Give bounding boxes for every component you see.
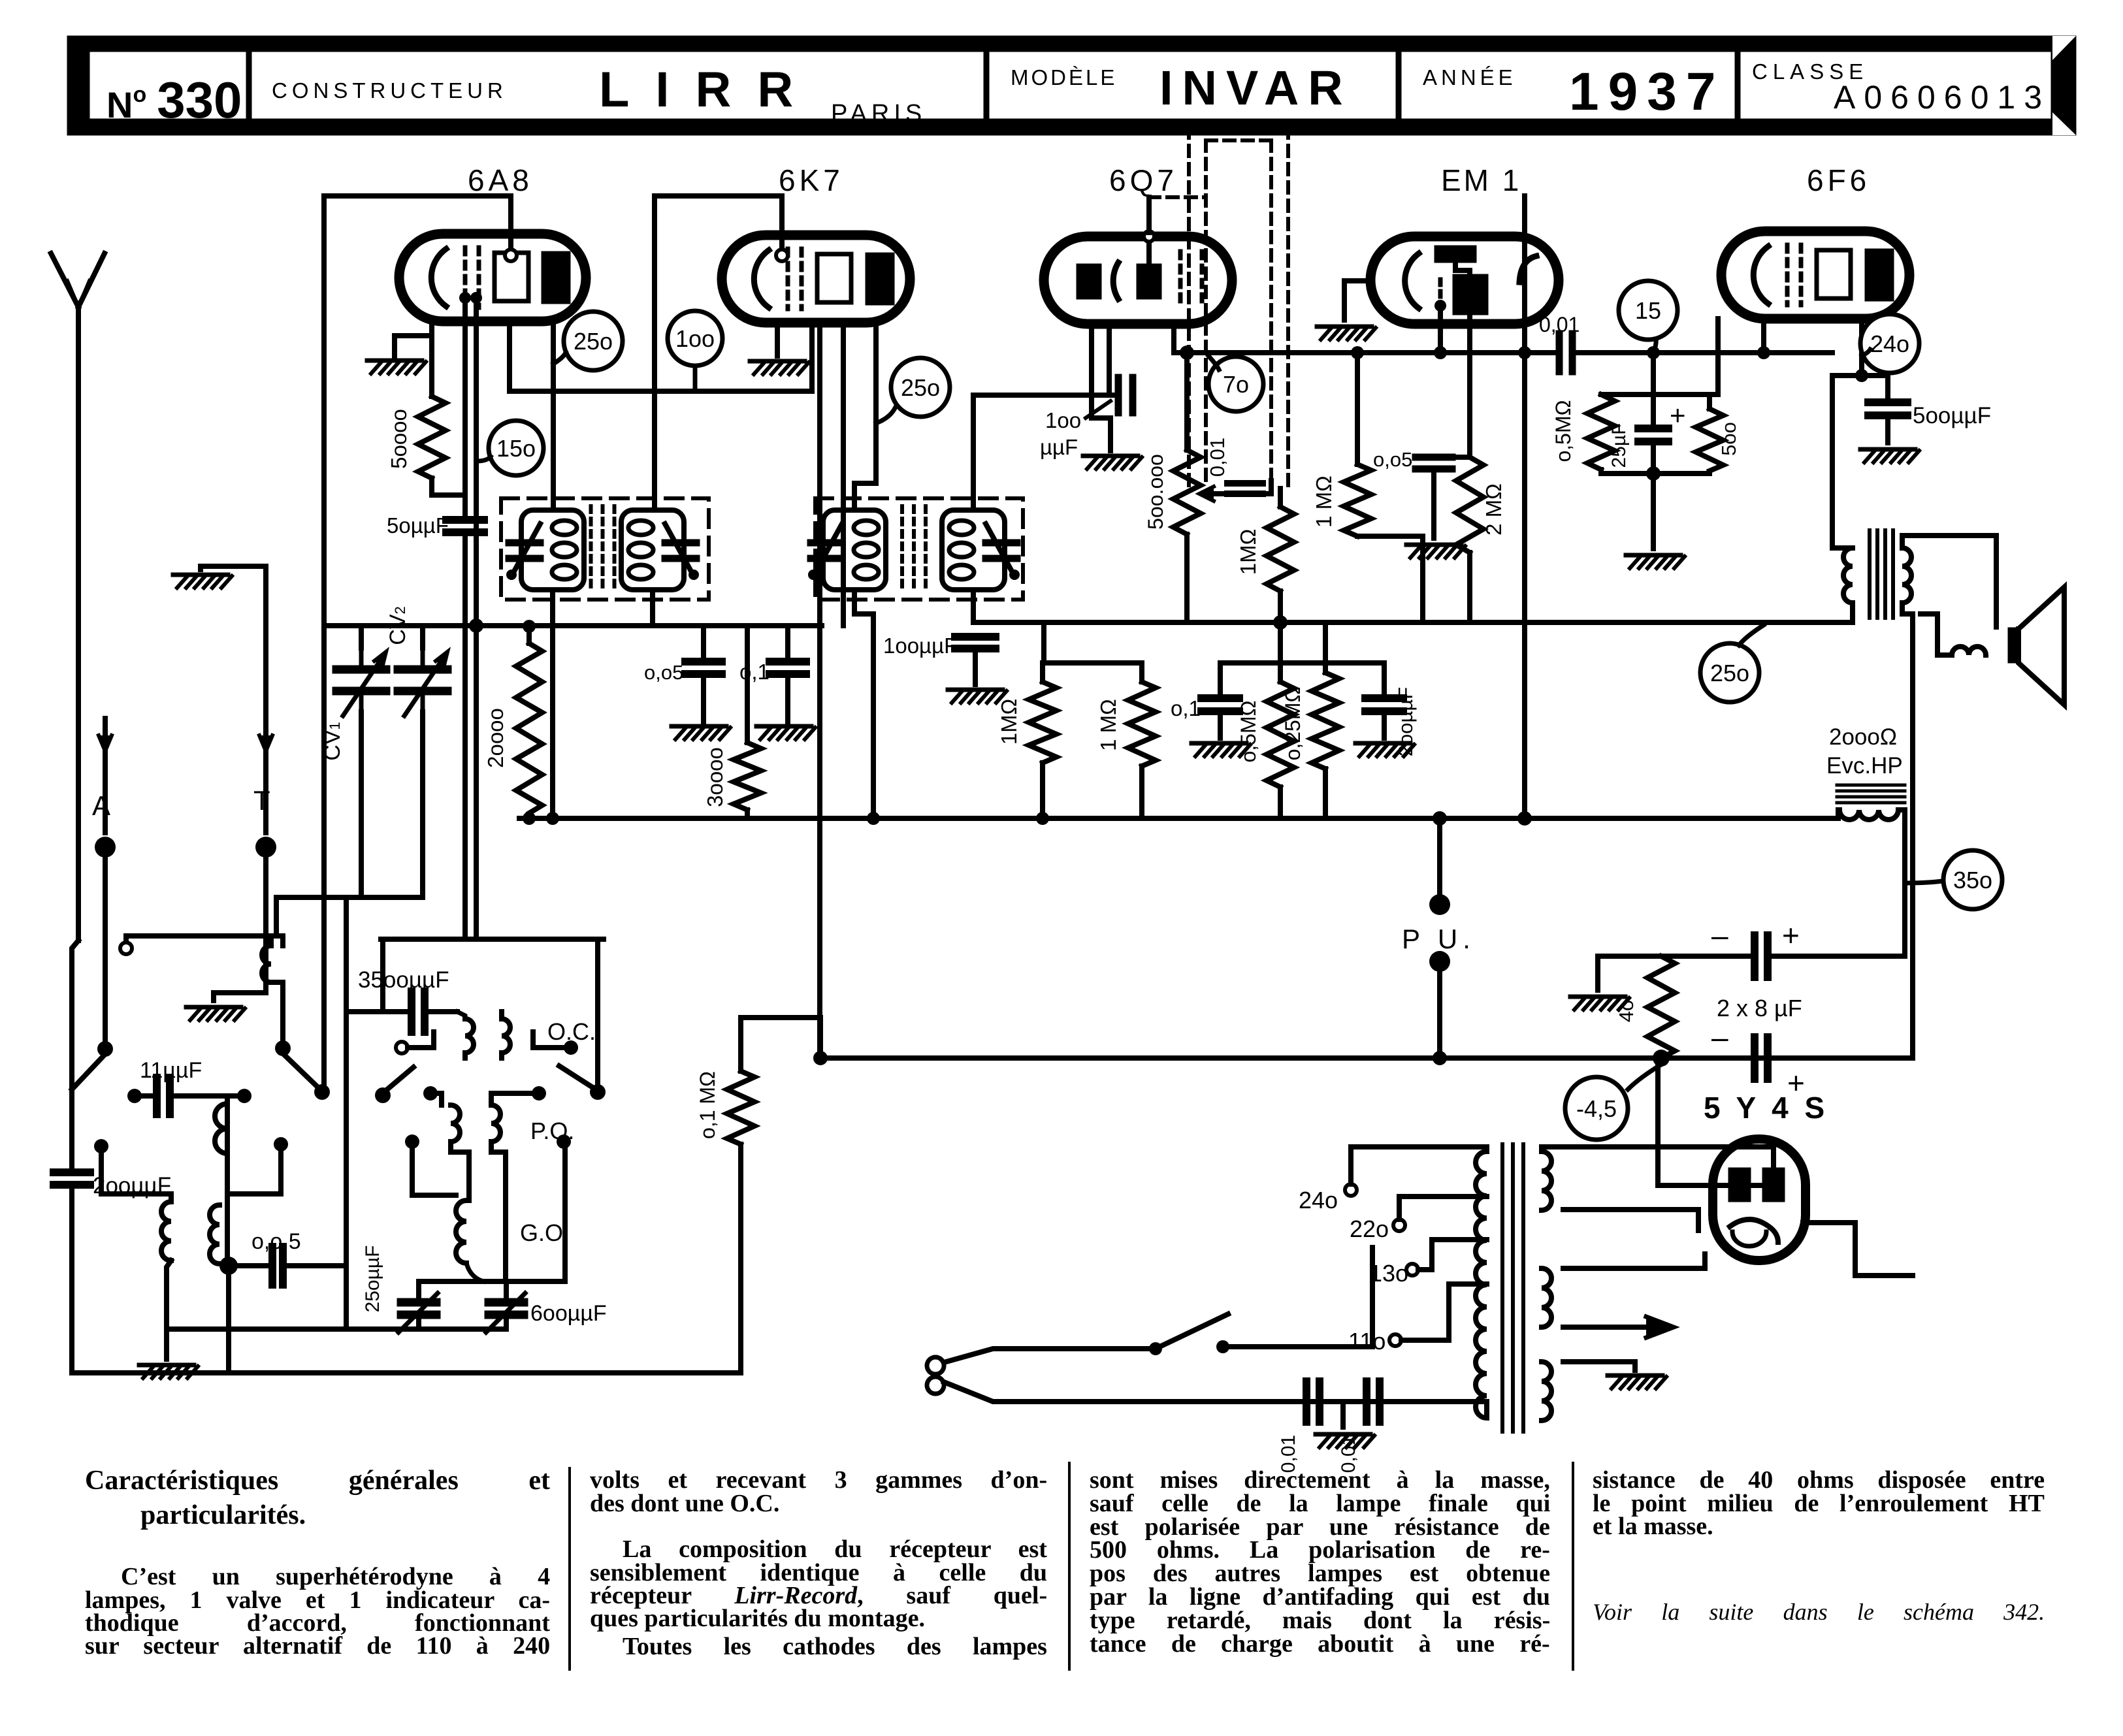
wire 500 top (1707, 394, 1712, 409)
wire 6A8 plate (551, 323, 556, 509)
mains wire top (944, 1349, 1156, 1362)
svg-text:5oo.ooo: 5oo.ooo (1144, 454, 1167, 530)
tube 6Q7 envelope (1044, 236, 1232, 324)
wire antenna drop (72, 940, 78, 1166)
svg-text:o,o5: o,o5 (1373, 448, 1412, 471)
wire 30000 leads (745, 626, 750, 818)
svg-text:1MΩ: 1MΩ (997, 699, 1021, 745)
wire bank rail 1 (1043, 622, 1142, 663)
resistor 0,5M (1237, 682, 1294, 787)
node ant switch right (275, 1040, 291, 1056)
wire IFT1 left bottom (550, 594, 555, 818)
node ant mid (219, 1257, 238, 1275)
wire CV2 route (346, 712, 423, 1329)
tap 130 (1369, 1240, 1487, 1287)
wire bank1 leads (1040, 663, 1045, 818)
coil GO (405, 1134, 571, 1281)
wire mains gnd stub (1340, 1402, 1346, 1427)
wire 0,01 to 1M (1278, 489, 1283, 507)
tap 220 (1350, 1197, 1487, 1242)
header outer box (67, 36, 2076, 135)
svg-text:2 x 8 µF: 2 x 8 µF (1717, 995, 1802, 1021)
text column 1 heading (85, 1466, 550, 1530)
coil ant sec 1 (161, 1194, 171, 1329)
text column 1 body (85, 1563, 550, 1660)
node 1M EM1 (1351, 346, 1364, 359)
svg-text:1oo: 1oo (1045, 408, 1081, 432)
svg-text:P U.: P U. (1402, 924, 1476, 954)
wire 1M EM1 bot (1357, 536, 1423, 622)
circle 250 (output) (1700, 625, 1764, 702)
wire EM1 right wire (1522, 196, 1527, 818)
tube label 6K7 (779, 163, 844, 197)
antenna (51, 253, 105, 940)
power transformer HT winding (1542, 1151, 1551, 1210)
node bus upper x2334 (1517, 811, 1532, 826)
svg-text:24o: 24o (1870, 330, 1909, 357)
svg-text:CONSTRUCTEUR: CONSTRUCTEUR (272, 78, 508, 103)
terminal T (214, 566, 276, 1001)
wire primary bottom (1484, 1402, 1489, 1414)
tube EM1 internals (1370, 236, 1559, 324)
wire 8uF-1 leads (1598, 954, 1905, 959)
svg-text:G.O: G.O (520, 1219, 563, 1246)
svg-text:7o: 7o (1223, 371, 1249, 398)
wire CV1 top (359, 626, 364, 648)
wire EM1 rail (1423, 455, 1470, 460)
resistor 2M (1456, 457, 1506, 553)
wire 2M bottom (1467, 553, 1472, 622)
wire bank rail 2 (1220, 660, 1384, 666)
node 6K7 top cap (776, 249, 788, 261)
svg-text:4o: 4o (1615, 1000, 1638, 1022)
ground transformer (1608, 1375, 1666, 1389)
node 40 bus (1653, 1050, 1670, 1067)
wire fil top (1563, 1254, 1705, 1268)
capacitor 200uuF (1365, 687, 1417, 756)
svg-text:LIRR: LIRR (599, 62, 819, 118)
svg-text:O.C.: O.C. (547, 1018, 596, 1045)
text column 2a (590, 1466, 1047, 1517)
wire 6A8 pin osc (474, 298, 479, 939)
wire 0,1 gnd (785, 674, 790, 722)
tap ant right (229, 1137, 288, 1194)
wire T upper hook (201, 566, 266, 570)
ground mains (1316, 1434, 1374, 1447)
resistor 0,25M (1281, 673, 1339, 769)
wire 6Q7 plate pin (1171, 324, 1176, 353)
bus upper (519, 812, 1838, 825)
svg-text:35o: 35o (1953, 867, 1992, 893)
svg-text:6Q7: 6Q7 (1109, 163, 1178, 197)
wire pot top (1184, 353, 1190, 450)
svg-text:A0606013: A0606013 (1834, 79, 2050, 116)
svg-text:35ooµµF: 35ooµµF (358, 967, 449, 993)
svg-text:25o: 25o (901, 374, 940, 401)
header CONSTRUCTEUR (272, 78, 508, 103)
column divider 3 (1572, 1463, 1574, 1669)
svg-text:o,1: o,1 (1171, 696, 1201, 720)
bus L1 (1174, 350, 1555, 355)
speaker voice coil (1920, 614, 1986, 655)
capacitor 0,1 (6K7) (739, 660, 806, 684)
wire 0,1M bottom (738, 1144, 743, 1373)
capacitor 0,05 (EM1) (1373, 448, 1452, 471)
capacitor 50uuF (387, 513, 484, 538)
resistor 30000 (703, 743, 761, 810)
node switch right (1216, 1340, 1229, 1353)
svg-text:o,o5: o,o5 (644, 661, 683, 684)
wire mid riser (226, 1266, 231, 1373)
wire bias to plate (1658, 1058, 1774, 1185)
svg-text:tance de charge aboutit à une: tance de charge aboutit à une ré- (1090, 1630, 1550, 1658)
coil OC (457, 1012, 510, 1058)
svg-text:–: – (1711, 1020, 1728, 1054)
resistor 500 (6F6) (1696, 409, 1740, 471)
text column 2c (623, 1633, 1047, 1660)
svg-text:Evc.HP: Evc.HP (1826, 753, 1903, 779)
wire 0,5M bot (1278, 787, 1283, 818)
wire 6A8 g2 line (510, 321, 812, 391)
wire 0,25M leads (1323, 622, 1328, 818)
resistor 1M bank2 (1096, 682, 1156, 766)
tube 5Y4S (1713, 1139, 1806, 1261)
text column 3 (1090, 1466, 1550, 1658)
svg-text:o,5MΩ: o,5MΩ (1551, 400, 1575, 462)
svg-text:25oµµF: 25oµµF (362, 1246, 383, 1313)
node 6A8 top cap (505, 249, 517, 261)
speaker (2008, 587, 2064, 705)
circle 150 (476, 421, 543, 475)
svg-text:2oooo: 2oooo (483, 708, 508, 768)
node cluster (1646, 466, 1661, 481)
svg-text:15: 15 (1635, 297, 1661, 324)
capacitor 8uF-2 (1711, 1020, 1805, 1100)
svg-text:6ooµµF: 6ooµµF (530, 1301, 607, 1326)
circle 250 (6K7) (876, 358, 950, 423)
svg-text:5 Y 4 S: 5 Y 4 S (1704, 1091, 1828, 1125)
header PARIS (831, 100, 926, 127)
wire 6Q7 topcap (1146, 197, 1152, 233)
wire 0,1M top (738, 1018, 743, 1071)
wire heater top lead (1563, 1359, 1635, 1364)
tap 110 (1348, 1284, 1487, 1355)
resistor 40 (1615, 956, 1675, 1058)
switch osc left arm (384, 1067, 413, 1092)
ground T upper (173, 575, 232, 588)
pot arrow (1199, 487, 1242, 501)
wire 25uF leads (1651, 394, 1656, 474)
wire 6K7 top-cap bracket (655, 196, 782, 508)
svg-text:24o: 24o (1299, 1187, 1338, 1214)
wire 6K7 cathode (775, 323, 780, 356)
output transformer secondary (1902, 536, 1996, 627)
switch A arm (72, 1054, 105, 1089)
mains wire right (1223, 1344, 1372, 1349)
coil ant sec 2 (210, 1205, 219, 1264)
svg-text:5oooo: 5oooo (387, 409, 411, 469)
circle 70 (1208, 356, 1263, 411)
svg-text:2oooΩ: 2oooΩ (1829, 724, 1897, 750)
svg-text:o,1 MΩ: o,1 MΩ (696, 1071, 719, 1139)
capacitor 100uuF (IF) (883, 634, 996, 658)
tube 6Q7 internals (1077, 231, 1202, 309)
bus L2 segment B (975, 620, 1836, 625)
wire field left (1838, 810, 1839, 818)
circle 250 (6A8) (553, 312, 623, 370)
wire 50uuF down (462, 532, 468, 939)
output transformer core (1870, 530, 1893, 618)
resistor 500000 pot (1144, 450, 1201, 534)
output transformer primary (1832, 548, 1853, 622)
ground 100uuF (948, 690, 1007, 703)
ground fil stub (1632, 1362, 1638, 1370)
svg-text:6F6: 6F6 (1807, 163, 1870, 197)
wire HT top (1542, 1147, 1774, 1168)
tap ant left (94, 1139, 171, 1194)
svg-text:INVAR: INVAR (1159, 61, 1352, 115)
wire osc right edge (595, 939, 600, 1084)
node 15 bus (1647, 346, 1660, 359)
node 6F6 grid (1757, 346, 1770, 359)
wire osc jumper 1962 (419, 1279, 565, 1284)
wire EM1 left gnd (1344, 281, 1370, 320)
text column 4 (1593, 1466, 2045, 1540)
wire 1M EM1 hang (1355, 353, 1360, 464)
capacitor 0,01 (6Q7) (1206, 438, 1263, 494)
wire 0,05 hang (701, 626, 706, 662)
bus osc bottom y2035 (167, 1326, 506, 1332)
svg-text:1MΩ: 1MΩ (1236, 529, 1260, 575)
column divider 2 (1068, 1463, 1071, 1669)
wire 1256 riser (818, 1018, 823, 1058)
svg-text:25o: 25o (1710, 660, 1749, 686)
wire 0,1 hang (785, 626, 790, 662)
IF transformer 2 (808, 498, 1023, 600)
svg-text:-4,5: -4,5 (1576, 1095, 1617, 1122)
wire CV2 top (420, 626, 425, 648)
wire EM1 grid stub (1438, 312, 1443, 353)
svg-text:Voir la suite dans le schéma 3: Voir la suite dans le schéma 342. (1593, 1599, 2045, 1625)
capacitor 0,05 antenna (229, 1229, 346, 1285)
circle -4,5 (1565, 1065, 1661, 1140)
wire 6A8 cathode (429, 321, 434, 396)
resistor 50000 (387, 396, 446, 478)
tube label 6A8 (468, 163, 533, 197)
capacitor 0,01 mains 2 (1338, 1381, 1380, 1473)
wire long vertical osc-grid (321, 196, 327, 1092)
ground 0,1 bank (1191, 743, 1250, 756)
text column 4 italic (1593, 1599, 2045, 1625)
node x2805 (1855, 369, 1868, 382)
OC right terminal (533, 1032, 578, 1055)
ground antenna bottom (139, 1365, 198, 1378)
tube label EM1 (1441, 163, 1521, 197)
svg-text:µµF: µµF (1040, 435, 1078, 459)
svg-text:Toutes les cathodes des lampes: Toutes les cathodes des lampes (623, 1633, 1047, 1660)
wire mast below cap (69, 1185, 74, 1373)
field coil core (1837, 785, 1905, 803)
wire IFT2 left bottom (854, 594, 873, 818)
wire 1M bottom (1278, 591, 1283, 682)
svg-text:MODÈLE: MODÈLE (1011, 65, 1117, 89)
node osc-grid link (314, 1084, 330, 1100)
header No 330 (106, 71, 242, 129)
ground 200uuF (1355, 743, 1414, 756)
wire rect right (1855, 1273, 1913, 1278)
node switch left (1149, 1342, 1162, 1355)
svg-text:3oooo: 3oooo (703, 747, 727, 807)
wire cluster gnd (1651, 474, 1656, 549)
node switch osc left (375, 1087, 391, 1103)
svg-text:15o: 15o (496, 435, 536, 462)
circle 350 (1905, 850, 2002, 909)
switch osc right arm (559, 1066, 596, 1089)
capacitor 0,01 mains 1 (1278, 1381, 1320, 1473)
wire 6F6 grid pin (1761, 319, 1766, 353)
bus L2 segment A (325, 623, 822, 628)
tube label 6Q7 (1109, 163, 1178, 197)
wire osc left edge (380, 939, 385, 1012)
tube 6A8 (399, 234, 586, 321)
shield dashed box 6Q7 (1149, 127, 1288, 489)
wire 6Q7 pin1 (1092, 324, 1110, 451)
node 6A8 pin dots (459, 292, 482, 304)
capacitor 8uF-1 (1711, 918, 1800, 977)
coil ant mid (215, 1096, 227, 1266)
svg-text:1ooµµF: 1ooµµF (883, 634, 957, 658)
svg-text:o,25MΩ: o,25MΩ (1281, 687, 1305, 761)
capacitor 250uuF padder (362, 1246, 438, 1332)
label OC (547, 1018, 596, 1045)
wire 40 gnd stub (1595, 956, 1600, 990)
resistor 0,5M (6F6) (1551, 394, 1615, 470)
node PU top (1433, 811, 1447, 826)
power transformer fil winding (1542, 1268, 1551, 1327)
svg-text:0,01: 0,01 (1206, 438, 1229, 477)
svg-text:+: + (1787, 1066, 1805, 1100)
svg-text:1oo: 1oo (675, 325, 715, 352)
switch lever (1156, 1314, 1228, 1349)
svg-text:2 MΩ: 2 MΩ (1482, 483, 1506, 536)
wire 100uuF gnd (973, 649, 978, 684)
wire 6Q7 pin2 (1107, 324, 1112, 395)
variable capacitors CV1 CV2 (320, 606, 447, 760)
svg-text:EM 1: EM 1 (1441, 163, 1521, 197)
svg-text:des dont une O.C.: des dont une O.C. (590, 1490, 779, 1517)
wire 0,05 gnd (701, 674, 706, 722)
svg-text:+: + (1670, 400, 1686, 430)
header ANNEE (1423, 65, 1517, 89)
svg-text:1 MΩ: 1 MΩ (1312, 475, 1336, 528)
mains plug (927, 1357, 944, 1394)
wire field right (1898, 810, 1905, 956)
svg-text:o,1: o,1 (739, 660, 770, 684)
header INVAR (1159, 61, 1352, 115)
circle 240 (1860, 314, 1919, 373)
svg-text:13o: 13o (1369, 1260, 1408, 1287)
header 1937 (1569, 62, 1725, 121)
label 5Y4S (1704, 1091, 1828, 1125)
svg-text:5oµµF: 5oµµF (387, 513, 449, 538)
PU pickup (1402, 818, 1476, 1058)
node osc switch right (590, 1084, 606, 1100)
wire IFT1 right bottom (650, 594, 655, 626)
wire cluster rail bottom (1601, 470, 1710, 474)
wire 0,01 links (1257, 481, 1271, 494)
wire 0,05 EM1 gnd (1431, 469, 1436, 538)
ground 0,1 (756, 726, 815, 739)
wire 0,1 bank leads (1218, 663, 1223, 738)
capacitor 3500uuF (346, 967, 457, 1032)
svg-text:particularités.: particularités. (140, 1500, 306, 1530)
header A0606013 (1834, 79, 2050, 116)
wire 200uuF leads (1382, 663, 1387, 738)
wire 6K7 plate (854, 323, 876, 509)
tube 6K7 (722, 235, 910, 323)
wire 20000 top (523, 620, 536, 643)
header MODELE (1011, 65, 1117, 89)
wire 15 drop (1651, 353, 1656, 394)
power transformer core (1502, 1144, 1523, 1432)
node 20000 bus (523, 812, 536, 825)
capacitor 0,01 coupling (1539, 313, 1580, 372)
svg-text:25µF: 25µF (1608, 423, 1630, 468)
svg-text:T: T (253, 785, 270, 816)
ground 6K7 cathode (750, 361, 809, 374)
bus lower (813, 1051, 1913, 1065)
svg-text:PARIS: PARIS (831, 100, 926, 127)
wire 6A8 pin g (462, 298, 468, 514)
ground cluster (1626, 555, 1685, 568)
capacitor 100uuF (6Q7 grid) (1040, 378, 1133, 459)
IF transformer 1 (501, 498, 709, 600)
wire 6K7 pin a (817, 323, 822, 1058)
power transformer primary (1476, 1151, 1487, 1418)
wire bank2 leads (1139, 663, 1144, 818)
ground T lower (186, 1007, 245, 1020)
wire EM1 anode down (1467, 315, 1472, 457)
svg-text:ANNÉE: ANNÉE (1423, 65, 1517, 89)
wire osc top line (381, 937, 604, 942)
tube 6F6 (1721, 231, 1909, 319)
header CLASSE (1752, 59, 1868, 84)
wire HT bottom (1563, 1210, 1698, 1230)
ground 0,05 EM1 (1406, 545, 1465, 558)
capacitor 200uuF (54, 1172, 171, 1198)
wire plate drop (1830, 376, 1835, 548)
capacitor 0,1 bank (1171, 696, 1239, 720)
wire 6F6 plate (1859, 319, 1864, 376)
svg-text:–: – (1711, 918, 1728, 952)
wire IFT2 right bottom (971, 594, 976, 622)
resistor 0,1M (696, 1071, 754, 1144)
svg-text:6K7: 6K7 (779, 163, 844, 197)
header LIRR (599, 62, 819, 118)
text column 2b (590, 1535, 1047, 1632)
wire sec to bus (1910, 614, 1915, 1058)
tube label 6F6 (1807, 163, 1870, 197)
wire 500uuF leads (1885, 376, 1890, 443)
capacitor 0,05 (6K7) (644, 661, 722, 684)
wire 6K7 pin b (841, 323, 846, 626)
wire switch riser (1370, 1247, 1375, 1347)
circle 15 (1619, 281, 1677, 353)
svg-text:1 MΩ: 1 MΩ (1096, 699, 1120, 751)
label field coil (1826, 724, 1903, 779)
bus L1 right (1572, 350, 1832, 355)
capacitor 500uuF (1868, 402, 1991, 428)
